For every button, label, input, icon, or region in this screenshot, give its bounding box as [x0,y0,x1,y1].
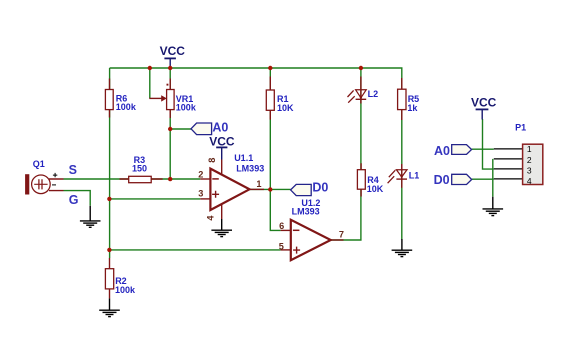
pin stubs L1 [401,164,403,188]
junction dot L2 / top rail [359,66,363,70]
wire VCC to P1 pin3 [483,119,494,169]
pin U1.1 in2 [200,178,210,180]
svg-text:4: 4 [527,176,532,186]
svg-text:1: 1 [256,179,261,189]
resistor R6 [105,90,136,113]
port D0 (left, at U1.1 output) [291,181,329,196]
svg-text:7: 7 [339,229,344,239]
power VCC main (top) [160,44,186,67]
svg-text:LM393: LM393 [292,207,320,217]
power VCC above P1 [471,95,497,119]
resistor R3 [129,155,152,183]
wire pin3 [110,198,201,200]
connector P1 [494,122,543,186]
potentiometer VR1 [149,84,197,113]
resistor R4 [357,170,383,195]
pin U1.1 gnd4 [221,204,223,219]
pin U1.2 in5 [281,249,291,251]
wire U1.1 output to D0 [250,188,291,190]
svg-text:S: S [69,163,77,177]
pin U1.1 out1 [250,188,265,190]
ground below P1 pin2 [483,197,504,216]
ground below microphone [80,206,101,228]
wire R1 column / pin6 feedback [270,68,280,230]
power VCC above U1.1 [209,135,235,160]
resistor R1 [266,90,294,113]
microphone Q1 [25,159,63,195]
pin stubs R2 [109,258,111,298]
svg-text:100k: 100k [176,102,197,112]
ground below R2 [99,298,120,316]
svg-text:A0: A0 [434,144,450,158]
svg-text:4: 4 [206,215,216,221]
svg-text:5: 5 [279,241,284,251]
port A0 (left, at VR1) [191,121,228,135]
wire D0 right to P1 pin4 [472,178,494,180]
pin stubs R6 [109,79,111,118]
svg-text:G: G [69,193,79,207]
pin U1.2 in6 [281,229,291,231]
ground below L1 [392,239,413,257]
svg-text:LM393: LM393 [236,163,264,173]
junction dot VR1 wiper / top rail [148,66,152,70]
ground below U1.1 pin4 [211,219,232,237]
junction dot pin5 / left column [107,248,111,252]
svg-text:1: 1 [527,144,532,154]
op-amp U1.2 [279,198,344,260]
wire P1 pin2 to ground [492,159,494,197]
svg-text:VCC: VCC [160,44,186,58]
wire R5/L1 column [401,68,403,240]
svg-text:A0: A0 [212,121,228,135]
pin stubs VR1 [169,79,171,119]
junction dot A0 tap [168,127,172,131]
svg-text:10K: 10K [367,184,384,194]
wire VR1 column [169,68,171,179]
op-amp U1.1 [198,153,264,221]
pin stubs R5 [401,78,403,120]
wire A0 right to P1 pin1 [472,148,494,150]
LED L1 [388,170,420,184]
svg-text:3: 3 [527,166,532,176]
LED L2 [348,89,379,103]
junction dot R1 / top rail [268,66,272,70]
svg-text:8: 8 [207,158,217,163]
wire top bus VCC rail [110,67,403,69]
svg-text:U1.1: U1.1 [234,153,253,163]
svg-text:D0: D0 [434,173,450,187]
junction dot VCC / VR1 top [168,66,172,70]
svg-text:L1: L1 [409,171,420,181]
port D0 (right, at P1) [434,173,472,187]
wire pin5 [110,249,281,251]
svg-text:100k: 100k [115,285,136,295]
wire left column R6/R2 [109,68,111,258]
svg-text:P1: P1 [515,122,526,132]
wire A0 left [170,128,191,130]
wire L2/R4 column to U1.2 output [331,68,361,240]
svg-text:6: 6 [279,221,284,231]
pin stubs R3 [120,178,163,180]
pin stubs R4 [360,163,362,196]
pin stubs R1 [269,77,271,120]
svg-text:10K: 10K [277,103,294,113]
pin U1.1 vcc8 [221,160,223,175]
resistor R5 [398,89,420,113]
pin U1.2 out7 [331,239,344,241]
junction dot U1.1 output / R1 column [268,187,272,191]
svg-text:Q1: Q1 [33,159,45,169]
svg-text:150: 150 [132,164,147,174]
svg-text:1k: 1k [407,103,418,113]
svg-text:2: 2 [527,155,532,165]
svg-text:100k: 100k [116,102,137,112]
pin stubs L2 [360,77,362,104]
svg-text:VCC: VCC [471,95,497,109]
svg-text:2: 2 [198,170,203,180]
junction dot VR1 bottom / node S [168,177,172,181]
wire VR1 wiper [149,68,151,98]
svg-text:D0: D0 [312,181,328,195]
svg-text:3: 3 [198,188,203,198]
wire node S mic to pin2 [64,178,201,180]
svg-text:L2: L2 [368,89,379,99]
junction dot pin3 / left column [107,197,111,201]
port A0 (right, at P1) [434,144,472,158]
resistor R2 [105,269,136,295]
pin U1.1 in3 [200,198,210,200]
wire mic G to ground [64,191,91,206]
